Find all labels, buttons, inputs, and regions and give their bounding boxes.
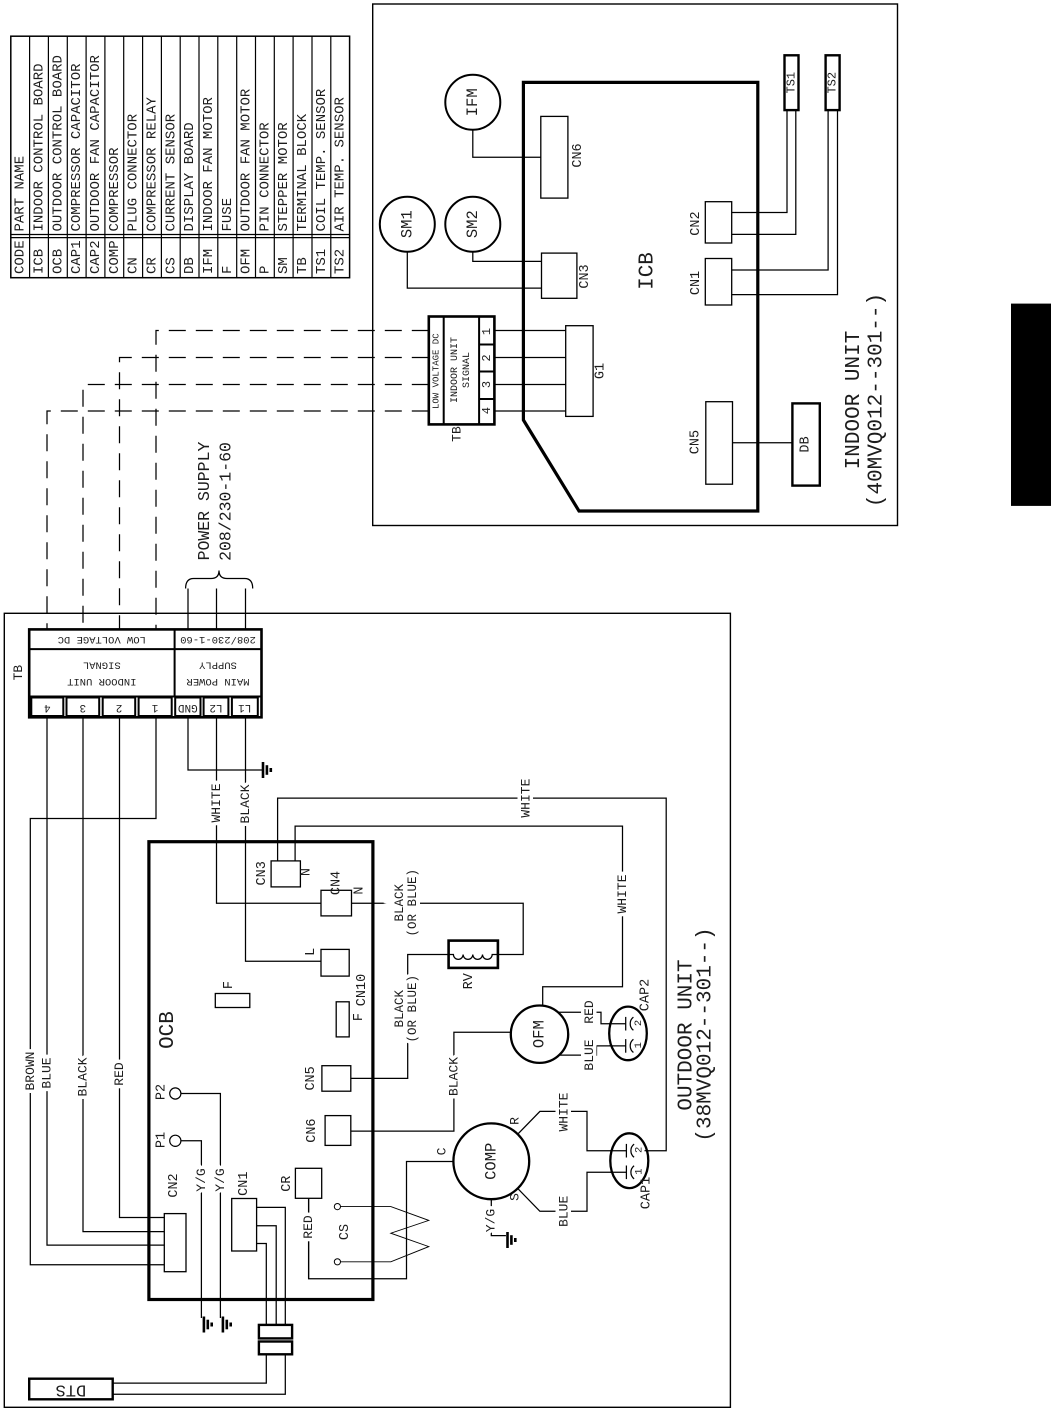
svg-text:PLUG CONNECTOR: PLUG CONNECTOR xyxy=(126,113,142,231)
connector CN3 (outdoor) xyxy=(271,861,300,887)
svg-text:RED: RED xyxy=(112,1062,127,1086)
svg-text:RED: RED xyxy=(301,1215,316,1239)
TB cell 1 xyxy=(139,698,172,717)
pin connector P2 xyxy=(170,1088,181,1099)
svg-text:BROWN: BROWN xyxy=(23,1051,38,1090)
svg-text:CS: CS xyxy=(163,257,179,274)
svg-text:COIL TEMP. SENSOR: COIL TEMP. SENSOR xyxy=(314,88,330,231)
svg-text:CN3: CN3 xyxy=(578,264,593,288)
ground (COMP) xyxy=(508,1232,516,1248)
compressor COMP xyxy=(453,1123,529,1199)
svg-text:STEPPER MOTOR: STEPPER MOTOR xyxy=(276,122,292,232)
svg-text:208/230-1-60: 208/230-1-60 xyxy=(180,633,256,645)
svg-text:INDOOR CONTROL BOARD: INDOOR CONTROL BOARD xyxy=(32,63,48,231)
svg-text:2: 2 xyxy=(480,354,494,361)
ground (P2) xyxy=(223,1317,231,1333)
wire SM2 to CN3 xyxy=(473,224,542,261)
svg-text:F: F xyxy=(222,981,237,989)
svg-text:COMP: COMP xyxy=(107,240,123,274)
svg-text:GND: GND xyxy=(178,701,198,713)
compressor relay CR xyxy=(295,1168,321,1198)
svg-text:CS: CS xyxy=(338,1224,353,1240)
connector CN2 (outdoor) xyxy=(164,1214,186,1272)
svg-text:2: 2 xyxy=(633,1020,645,1026)
terminal block TB (outdoor) xyxy=(29,629,261,717)
wire signal 1 (dashed) xyxy=(156,331,429,630)
svg-text:ICB: ICB xyxy=(637,252,660,290)
power wire L2 xyxy=(216,589,218,630)
svg-text:CN5: CN5 xyxy=(304,1066,319,1090)
svg-text:LOW VOLTAGE DC: LOW VOLTAGE DC xyxy=(58,633,146,645)
svg-text:CN1: CN1 xyxy=(237,1172,252,1196)
wire stack to DTS lower xyxy=(113,1354,286,1394)
TB cell 4 xyxy=(31,698,63,717)
svg-text:SM2: SM2 xyxy=(464,210,482,238)
svg-text:1: 1 xyxy=(480,328,494,335)
svg-text:IFM: IFM xyxy=(464,88,482,116)
svg-text:2: 2 xyxy=(116,701,123,713)
svg-text:INDOOR UNIT: INDOOR UNIT xyxy=(843,331,866,470)
wire TB4 BLUE to CN2 xyxy=(47,717,164,1245)
svg-text:OFM: OFM xyxy=(531,1020,549,1048)
svg-text:OCB: OCB xyxy=(157,1011,180,1049)
connector CN5 (outdoor) xyxy=(322,1066,351,1092)
svg-text:CAP1: CAP1 xyxy=(640,1177,655,1209)
svg-text:DISPLAY BOARD: DISPLAY BOARD xyxy=(182,122,198,231)
svg-text:TS1: TS1 xyxy=(785,72,799,94)
svg-text:INDOOR UNIT: INDOOR UNIT xyxy=(67,675,136,687)
TB cell L2 xyxy=(204,698,229,717)
svg-text:CR: CR xyxy=(145,257,161,274)
outdoor unit border xyxy=(4,613,730,1407)
wire CN1 to stack pin1 xyxy=(257,1207,286,1325)
svg-text:LOW VOLTAGE DC: LOW VOLTAGE DC xyxy=(432,333,442,409)
TB texts (rotated 180) xyxy=(58,633,256,687)
fuse F1 xyxy=(215,994,250,1008)
svg-text:P1: P1 xyxy=(155,1132,170,1148)
svg-text:WHITE: WHITE xyxy=(615,874,630,913)
svg-text:(OR BLUE): (OR BLUE) xyxy=(406,975,420,1043)
wire stack to DTS upper xyxy=(113,1354,267,1383)
svg-text:TERMINAL BLOCK: TERMINAL BLOCK xyxy=(295,113,311,231)
svg-text:3: 3 xyxy=(480,381,494,388)
wire CN1 to TS2 pin2 xyxy=(732,110,838,295)
connector G1 xyxy=(566,326,593,417)
svg-text:COMPRESSOR RELAY: COMPRESSOR RELAY xyxy=(145,96,161,231)
svg-text:TB: TB xyxy=(450,426,465,442)
wire TB to G1 pin1 xyxy=(494,330,565,332)
svg-text:CN3: CN3 xyxy=(255,861,270,885)
reversing valve RV xyxy=(449,941,498,968)
svg-text:CN6: CN6 xyxy=(571,143,586,167)
TB cell GND xyxy=(175,698,200,717)
current sensor CS zigzag xyxy=(340,1207,428,1262)
svg-text:P: P xyxy=(257,266,273,274)
svg-text:L2: L2 xyxy=(209,701,222,713)
svg-text:BLACK: BLACK xyxy=(446,1057,461,1096)
svg-text:F: F xyxy=(352,1013,367,1021)
connector CN5 (indoor) xyxy=(706,402,733,485)
svg-text:SIGNAL: SIGNAL xyxy=(462,352,473,388)
wire CN5 to DB xyxy=(733,442,793,444)
svg-text:WHITE: WHITE xyxy=(519,778,534,817)
svg-text:CN2: CN2 xyxy=(167,1173,182,1197)
fan motor IFM xyxy=(445,75,500,130)
power wire GND xyxy=(187,589,189,630)
svg-text:DTS: DTS xyxy=(56,1380,87,1399)
svg-text:IFM: IFM xyxy=(201,249,217,274)
wire P1 to ground xyxy=(181,1141,202,1318)
svg-text:BLUE: BLUE xyxy=(582,1039,597,1070)
wire TB to G1 pin2 xyxy=(494,357,565,359)
svg-text:CN1: CN1 xyxy=(689,271,704,295)
pin connector P1 xyxy=(170,1135,181,1146)
svg-text:CAP1: CAP1 xyxy=(69,240,85,274)
svg-text:OUTDOOR FAN CAPACITOR: OUTDOOR FAN CAPACITOR xyxy=(88,54,104,231)
svg-text:N: N xyxy=(300,868,315,876)
svg-text:CN: CN xyxy=(126,257,142,274)
wire signal 2 (dashed) xyxy=(120,358,429,630)
svg-text:R: R xyxy=(508,1117,523,1125)
svg-text:AIR TEMP. SENSOR: AIR TEMP. SENSOR xyxy=(333,96,349,231)
svg-text:OFM: OFM xyxy=(239,249,255,274)
wire CN1 to stack pin3 xyxy=(257,1244,267,1325)
svg-text:TS1: TS1 xyxy=(314,249,330,274)
display board DB xyxy=(792,403,819,485)
svg-text:CODE: CODE xyxy=(13,240,29,274)
wire RV to CN5 drop xyxy=(351,955,449,1079)
svg-text:3: 3 xyxy=(79,701,86,713)
svg-text:Y/G: Y/G xyxy=(213,1168,228,1191)
svg-text:CURRENT SENSOR: CURRENT SENSOR xyxy=(163,113,179,231)
ground (GND terminal) xyxy=(263,762,271,778)
svg-text:WHITE: WHITE xyxy=(209,783,224,822)
svg-text:SM1: SM1 xyxy=(398,210,416,238)
board ICB outline xyxy=(523,82,757,511)
wire L1 BLACK down to CN10 xyxy=(246,717,322,961)
fuse F2 xyxy=(336,1002,349,1037)
board OCB outline xyxy=(149,842,373,1300)
svg-text:FUSE: FUSE xyxy=(220,198,236,232)
stepper motor SM2 xyxy=(445,197,500,252)
svg-text:(38MVQ012--301--): (38MVQ012--301--) xyxy=(695,927,718,1141)
wire CN3 pin1 WHITE long run to CAP1 xyxy=(278,798,667,1151)
stepper motor SM1 xyxy=(380,197,435,252)
svg-text:BLUE: BLUE xyxy=(40,1057,55,1088)
svg-text:CAP2: CAP2 xyxy=(88,240,104,274)
svg-text:OUTDOOR FAN MOTOR: OUTDOOR FAN MOTOR xyxy=(239,88,255,231)
svg-text:Y/G: Y/G xyxy=(483,1209,498,1232)
connector CN1 (outdoor) xyxy=(232,1199,257,1252)
wire P2 to ground xyxy=(181,1094,221,1319)
svg-text:1: 1 xyxy=(151,701,158,713)
wire signal 4 (dashed) xyxy=(47,411,429,629)
wire COMP to ground Y/G xyxy=(491,1199,506,1235)
svg-text:BLUE: BLUE xyxy=(557,1196,572,1227)
TB cell 2 xyxy=(103,698,136,717)
capacitor CAP1 xyxy=(610,1133,648,1188)
svg-text:CN10: CN10 xyxy=(355,974,370,1006)
svg-text:COMPRESSOR: COMPRESSOR xyxy=(107,147,123,232)
svg-text:PART NAME: PART NAME xyxy=(13,156,29,232)
wire CN2 to TS1 pin2 xyxy=(732,110,796,234)
capacitor CAP2 xyxy=(609,1007,647,1061)
legend table xyxy=(11,36,350,278)
outdoor unit title xyxy=(676,927,718,1141)
svg-text:(40MVQ012--301--): (40MVQ012--301--) xyxy=(866,293,889,507)
svg-text:DB: DB xyxy=(182,257,198,274)
connector CN10 xyxy=(321,949,349,976)
power wire L1 xyxy=(245,589,247,630)
svg-text:SIGNAL: SIGNAL xyxy=(83,659,121,671)
svg-text:CN6: CN6 xyxy=(305,1118,320,1142)
wire signal 3 (dashed) xyxy=(83,385,429,630)
sensor DTS xyxy=(29,1379,113,1400)
wire OFM to CAP2 RED xyxy=(558,1012,626,1023)
svg-text:BLACK: BLACK xyxy=(238,784,253,823)
svg-text:TB: TB xyxy=(295,257,311,274)
svg-text:RV: RV xyxy=(462,972,477,989)
wire CN4 to RV xyxy=(352,903,524,954)
connector CN4 xyxy=(321,890,352,916)
connector CN6 (outdoor) xyxy=(325,1116,351,1146)
wire TB to G1 pin4 xyxy=(494,410,565,412)
svg-text:DB: DB xyxy=(799,436,814,452)
svg-text:RED: RED xyxy=(582,1000,597,1024)
svg-text:SM: SM xyxy=(276,257,292,274)
wire IFM to CN6 xyxy=(473,104,541,157)
CS terminal circles xyxy=(334,1204,340,1210)
svg-text:C: C xyxy=(435,1147,450,1155)
svg-text:1: 1 xyxy=(634,1168,646,1174)
field wiring: dashed signal wires TB(outdoor) to TB(indoor) xyxy=(47,331,429,630)
indoor unit title xyxy=(843,293,889,507)
indoor unit border xyxy=(373,4,898,526)
svg-text:L: L xyxy=(304,948,319,956)
svg-text:INDOOR UNIT: INDOOR UNIT xyxy=(450,337,461,403)
svg-text:COMP: COMP xyxy=(482,1143,500,1180)
connector CN3 (indoor) xyxy=(542,253,577,298)
label background blocks xyxy=(394,871,421,935)
svg-text:S: S xyxy=(508,1193,523,1201)
wire CN2 to TS1 pin1 xyxy=(732,110,787,212)
svg-text:TB: TB xyxy=(11,665,26,681)
svg-text:N: N xyxy=(353,886,368,894)
wire CR to COMP C (via RED) xyxy=(308,1198,310,1279)
coil temp sensor TS1 xyxy=(785,55,799,110)
wire TB1 BROWN to CN2 xyxy=(30,717,164,1265)
wire OFM to CAP2 BLUE xyxy=(560,1046,626,1055)
wire CN3 pin2 WHITE run to OFM xyxy=(295,826,622,1006)
svg-text:OCB: OCB xyxy=(50,249,66,274)
svg-text:L1: L1 xyxy=(238,701,252,713)
svg-text:OUTDOOR CONTROL BOARD: OUTDOOR CONTROL BOARD xyxy=(50,55,66,231)
wire TB3 BLACK to CN2 xyxy=(83,717,164,1231)
TB cell 3 xyxy=(67,698,100,717)
svg-text:CR: CR xyxy=(280,1176,295,1192)
svg-text:PIN CONNECTOR: PIN CONNECTOR xyxy=(257,122,273,232)
wire COMP R to CAP1 pin2 xyxy=(491,1111,626,1161)
svg-text:Y/G: Y/G xyxy=(194,1168,209,1191)
power supply label xyxy=(195,441,235,560)
wire L2 WHITE down to CN4 node xyxy=(217,717,322,903)
svg-text:TS2: TS2 xyxy=(333,249,349,274)
wire CN1 to TS2 pin1 xyxy=(732,110,828,270)
svg-text:INDOOR FAN MOTOR: INDOOR FAN MOTOR xyxy=(201,96,217,231)
wire TB to G1 pin3 xyxy=(494,384,565,386)
svg-text:CN4: CN4 xyxy=(330,871,345,895)
svg-text:TS2: TS2 xyxy=(826,72,840,94)
black page tab xyxy=(1011,304,1051,506)
wire GND to earth xyxy=(188,717,262,770)
svg-text:CAP2: CAP2 xyxy=(639,979,654,1011)
ground (P1) xyxy=(204,1317,212,1333)
connector CN1 (indoor) xyxy=(705,259,731,306)
brace for power supply xyxy=(186,571,253,589)
svg-text:MAIN POWER: MAIN POWER xyxy=(186,675,250,687)
air temp sensor TS2 xyxy=(826,55,840,110)
fan motor OFM xyxy=(511,1005,568,1062)
wire labels on TB drops xyxy=(23,783,253,1096)
wire COMP S to CAP1 pin1 xyxy=(491,1161,626,1211)
wire TB2 RED to CN2 xyxy=(120,717,165,1217)
plug connector stack xyxy=(259,1325,292,1339)
labels BLACK (OR BLUE) upper xyxy=(393,869,420,1043)
svg-text:(OR BLUE): (OR BLUE) xyxy=(406,869,420,937)
svg-text:4: 4 xyxy=(44,701,51,713)
connector CN6 (indoor) xyxy=(541,116,568,198)
svg-text:P2: P2 xyxy=(155,1084,170,1100)
connector CN2 (indoor) xyxy=(705,202,731,243)
svg-text:WHITE: WHITE xyxy=(557,1092,572,1131)
svg-text:2: 2 xyxy=(634,1147,646,1153)
wire CN1 to stack pin2 xyxy=(257,1226,277,1325)
svg-text:4: 4 xyxy=(480,407,494,414)
svg-text:ICB: ICB xyxy=(32,249,48,274)
svg-text:POWER SUPPLY: POWER SUPPLY xyxy=(195,441,214,560)
svg-text:CN2: CN2 xyxy=(689,211,704,235)
svg-text:F: F xyxy=(220,266,236,274)
svg-text:COMPRESSOR CAPACITOR: COMPRESSOR CAPACITOR xyxy=(69,63,85,232)
wire SM1 to CN3 xyxy=(407,224,541,288)
svg-text:SUPPLY: SUPPLY xyxy=(198,659,237,671)
svg-text:BLACK: BLACK xyxy=(76,1057,91,1096)
wire COMP C to CR loop xyxy=(309,1162,454,1279)
svg-text:G1: G1 xyxy=(594,363,609,379)
wire CN6 to OFM BLACK xyxy=(351,1032,511,1131)
terminal block TB (indoor) xyxy=(429,317,495,425)
svg-text:208/230-1-60: 208/230-1-60 xyxy=(216,442,235,561)
TB cell L1 xyxy=(232,698,258,717)
svg-text:1: 1 xyxy=(633,1042,645,1048)
svg-text:CN5: CN5 xyxy=(688,430,703,454)
